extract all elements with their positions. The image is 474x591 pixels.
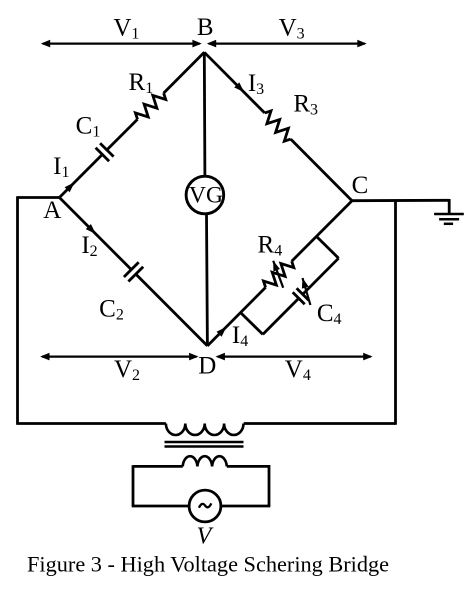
svg-text:Figure 3 - High Voltage Scheri: Figure 3 - High Voltage Schering Bridge [27,552,389,577]
svg-text:VG: VG [189,182,223,208]
svg-text:D: D [198,353,216,380]
svg-text:A: A [43,197,61,224]
svg-text:B: B [197,14,214,41]
svg-text:C: C [352,172,369,199]
svg-text:V: V [197,524,214,550]
